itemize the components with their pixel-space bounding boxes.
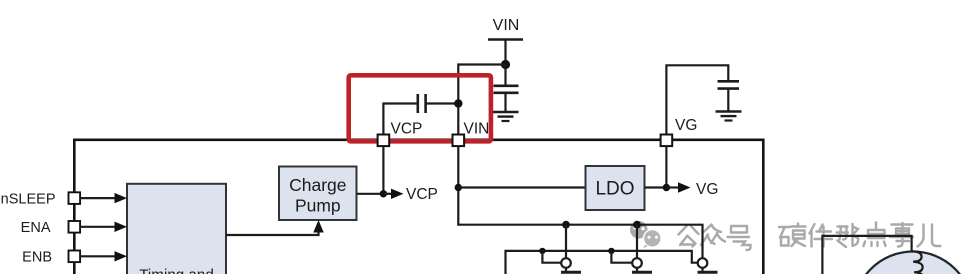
glyph DIAN <box>864 223 886 247</box>
junction dot (VIN line / LDO feed) <box>455 184 462 191</box>
capacitor C1 (VIN bypass) <box>494 65 519 112</box>
wire drain drop Q1 <box>565 225 567 259</box>
pin nSLEEP <box>69 192 81 204</box>
glyph GONG <box>679 226 699 247</box>
watermark text (hand-drawn CJK strokes) <box>679 223 941 251</box>
LDO block U2 <box>586 166 645 210</box>
svg-text:nSLEEP: nSLEEP <box>1 192 56 208</box>
timing block U3 <box>127 184 226 274</box>
wire VG pin down to VG node <box>665 147 667 188</box>
capacitor C3 (VG) <box>718 81 740 110</box>
svg-text:VG: VG <box>696 181 718 198</box>
wire drain drop Q2 <box>636 225 638 259</box>
glyph ZHONG <box>701 225 725 246</box>
junction dot VIN supply <box>501 60 510 69</box>
junction dot (gate rail Q1) <box>539 248 545 254</box>
arrow VG output <box>666 182 690 192</box>
svg-text:ENB: ENB <box>22 250 52 266</box>
ground (below C1) <box>493 112 519 121</box>
junction dot (rail at Q2) <box>633 221 641 229</box>
svg-text:Timing and: Timing and <box>139 266 214 274</box>
glyph SHI <box>890 223 913 247</box>
svg-text:Pump: Pump <box>295 196 341 216</box>
charge pump block U1 <box>279 167 357 221</box>
wire gate Q2 <box>611 251 632 263</box>
node VIN supply label <box>488 17 523 65</box>
svg-text:VCP: VCP <box>406 186 438 203</box>
wire VG pin to VG cap <box>666 65 728 135</box>
junction dot VCP node <box>380 190 387 197</box>
junction dot (gate rail Q2) <box>608 248 614 254</box>
wire motor lead <box>822 236 911 274</box>
svg-text:VIN: VIN <box>493 17 520 34</box>
arrow VCP output <box>383 189 403 199</box>
arrow ENB to timing block <box>81 251 128 261</box>
pin ENB <box>69 251 81 263</box>
svg-text:ENA: ENA <box>21 220 51 236</box>
junction dot (C2 to VIN line) <box>454 99 462 107</box>
IC outline (device boundary) <box>74 140 763 274</box>
motor winding coil <box>912 251 924 274</box>
arrow ENA to timing block <box>81 222 128 232</box>
wire gate Q1 <box>542 251 561 263</box>
pin VCP <box>378 135 390 147</box>
wire VCP pin down to VCP node <box>382 147 384 194</box>
wire VIN supply to VIN pin <box>458 65 505 136</box>
pin VG <box>661 135 673 147</box>
pin VIN <box>453 135 465 147</box>
ground (below C3) <box>716 112 742 121</box>
transistor Q3 <box>698 258 718 272</box>
arrow nSLEEP to timing block <box>81 193 128 203</box>
junction dot (rail at Q1) <box>562 221 570 229</box>
highlight box (red) <box>349 75 491 141</box>
glyph JIAN <box>810 224 833 247</box>
svg-text:VCP: VCP <box>391 121 423 138</box>
wire timing block to charge pump (with up arrow) <box>226 220 324 235</box>
wire LDO output to VG node <box>645 186 667 188</box>
junction dot VG node <box>663 184 670 191</box>
capacitor C2 (VCP flying cap) <box>418 94 459 113</box>
svg-text:VG: VG <box>675 117 697 134</box>
wire VCP pin to capacitor C2 <box>383 104 417 136</box>
glyph YING <box>779 224 806 247</box>
pin ENA <box>69 221 81 233</box>
transistor Q1 <box>561 258 581 272</box>
svg-text:LDO: LDO <box>595 179 634 200</box>
wire charge pump output to VCP node <box>357 193 384 195</box>
gate rail wire <box>506 251 698 274</box>
glyph NA <box>837 224 859 247</box>
svg-text:VIN: VIN <box>464 121 490 138</box>
glyph ER <box>918 225 941 247</box>
transistor Q2 <box>632 258 652 272</box>
wire VIN line to LDO <box>458 186 585 188</box>
wire VIN pin down to H-bridge rail <box>458 147 702 259</box>
motor M1 (circle) <box>854 252 970 274</box>
watermark logo (WeChat bubbles) <box>630 221 662 248</box>
glyph HAO <box>728 226 751 250</box>
svg-text:Charge: Charge <box>289 175 346 195</box>
